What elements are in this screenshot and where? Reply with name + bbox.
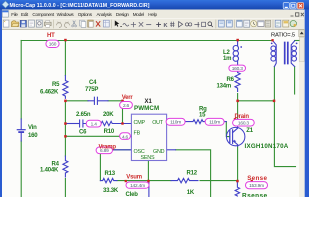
svg-text:160: 160 [28, 133, 38, 139]
svg-text:110m: 110m [170, 120, 181, 126]
svg-text:Edit: Edit [21, 12, 29, 17]
svg-text:PWMCM: PWMCM [134, 105, 159, 112]
svg-text:160.3: 160.3 [238, 121, 250, 127]
svg-text:HT: HT [47, 33, 55, 39]
svg-text:134m: 134m [217, 84, 232, 90]
svg-text:2.65n: 2.65n [76, 112, 91, 118]
svg-text:Drain: Drain [235, 114, 250, 120]
svg-text:153.9m: 153.9m [249, 183, 264, 189]
svg-text:160.3: 160.3 [232, 66, 244, 72]
svg-text:K: K [164, 23, 168, 29]
svg-text:IXGH10N170A: IXGH10N170A [245, 143, 289, 150]
svg-text:R6: R6 [227, 77, 235, 83]
svg-text:Sense: Sense [247, 175, 267, 182]
svg-text:Help: Help [148, 12, 157, 17]
svg-text:1.404K: 1.404K [40, 168, 59, 174]
svg-text:OSC: OSC [134, 149, 145, 155]
svg-text:110m: 110m [209, 120, 220, 126]
svg-text:4.6: 4.6 [122, 134, 129, 140]
svg-text:SENS: SENS [141, 155, 155, 161]
svg-text:2.6: 2.6 [123, 103, 130, 109]
svg-text:Verr: Verr [122, 95, 134, 101]
svg-text:Vin: Vin [28, 125, 37, 131]
svg-text:C6: C6 [79, 129, 87, 135]
svg-text:1.4: 1.4 [91, 121, 98, 127]
svg-text:33.3K: 33.3K [103, 188, 119, 194]
svg-text:Z1: Z1 [246, 128, 253, 134]
svg-text:15: 15 [199, 113, 206, 119]
svg-text:Options: Options [78, 12, 93, 17]
svg-text:Cleb: Cleb [126, 192, 139, 197]
svg-text:Analysis: Analysis [97, 12, 113, 17]
svg-text:775P: 775P [85, 87, 98, 93]
svg-text:Model: Model [133, 12, 144, 17]
svg-text:R12: R12 [187, 171, 198, 177]
svg-text:Vsum: Vsum [126, 175, 142, 181]
svg-text:L2: L2 [223, 50, 230, 56]
svg-text:6.462K: 6.462K [40, 90, 59, 96]
svg-text:File: File [11, 12, 18, 17]
svg-text:RATIO=.5: RATIO=.5 [271, 32, 295, 38]
svg-text:1m: 1m [223, 56, 231, 62]
svg-text:GND: GND [153, 149, 165, 155]
svg-text:X1: X1 [145, 99, 153, 105]
svg-text:Rg: Rg [199, 106, 207, 112]
svg-text:R5: R5 [52, 82, 60, 88]
svg-text:142.4m: 142.4m [130, 183, 145, 189]
svg-text:Micro-Cap 11.0.0.0 - [C:\MC11\: Micro-Cap 11.0.0.0 - [C:\MC11\DATA\1M_FO… [10, 3, 150, 9]
svg-text:OUT: OUT [152, 120, 164, 126]
svg-text:Windows: Windows [57, 12, 75, 17]
svg-text:1K: 1K [187, 190, 195, 196]
svg-text:FB: FB [134, 131, 141, 137]
svg-text:20K: 20K [103, 112, 114, 118]
svg-text:Rsense: Rsense [242, 192, 268, 197]
svg-text:R13: R13 [105, 171, 116, 177]
svg-text:Design: Design [116, 12, 129, 17]
svg-text:R10: R10 [104, 129, 115, 135]
svg-text:160: 160 [49, 42, 57, 48]
svg-text:Vramp: Vramp [99, 145, 117, 151]
svg-text:Component: Component [32, 12, 54, 17]
svg-text:CMP: CMP [134, 120, 146, 126]
svg-text:C4: C4 [89, 80, 97, 86]
